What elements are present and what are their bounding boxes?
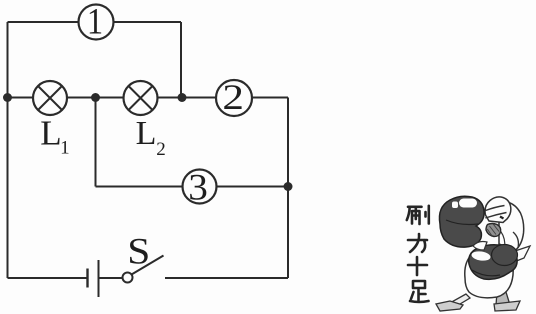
svg-text:L: L (136, 115, 157, 152)
svg-text:2: 2 (156, 139, 166, 160)
svg-text:S: S (127, 231, 150, 272)
svg-text:2: 2 (222, 77, 244, 117)
svg-text:L: L (40, 114, 61, 153)
svg-text:1: 1 (60, 138, 70, 159)
svg-text:1: 1 (87, 0, 103, 41)
svg-text:3: 3 (188, 167, 208, 208)
